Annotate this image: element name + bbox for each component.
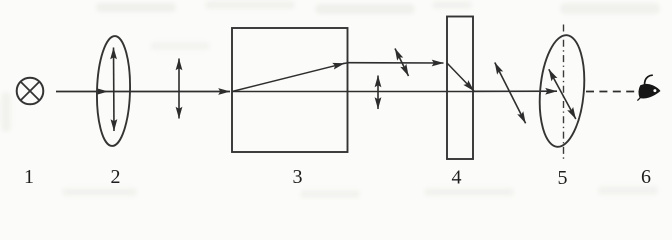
lens 2 vertical double arrow [113, 48, 116, 132]
wire: axis through box 3 and up to rect 4 right edge [232, 91, 473, 93]
eye symbol 6 [637, 75, 660, 100]
wire: axis segment lens 2 to box 3 with arrow [108, 91, 230, 93]
wire: axis segment lamp to lens 2 with arrow [56, 91, 108, 93]
svg-text:5: 5 [558, 167, 568, 189]
node: small vertical double arrow on axis after box 3 [377, 76, 379, 110]
box 3 (rectangle) [232, 28, 348, 152]
node: long tilted double arrow between rect 4 and lens 5 [495, 63, 526, 124]
svg-text:3: 3 [293, 166, 303, 188]
lens 5 diagonal double arrow [549, 69, 576, 119]
rect 4 (narrow plate) [447, 17, 473, 160]
svg-text:1: 1 [24, 166, 34, 188]
node: tilted double arrow on upper ray [395, 49, 409, 77]
ray: upper horizontal ray box 3 to rect 4 with arrow [348, 62, 444, 64]
lens 5 (tilted ellipse) [535, 33, 588, 148]
svg-text:2: 2 [111, 166, 121, 188]
svg-text:4: 4 [452, 167, 462, 189]
lens 5 dash-dot optical axis vertical [563, 25, 565, 163]
wire: dashed axis lens 5 to eye [586, 91, 635, 93]
wire: axis rect 4 to lens 5 with arrow [473, 90, 557, 92]
ray: diagonal inside box 3 with arrow [232, 63, 345, 91]
lens 2 (ellipse) [96, 36, 132, 147]
svg-text:6: 6 [641, 166, 651, 188]
lamp source 1 (circle with X) [17, 78, 44, 105]
node: vertical double arrow marker between lens 2 and box 3 [178, 59, 180, 119]
ray: diagonal inside rect 4 with arrow [447, 63, 474, 91]
